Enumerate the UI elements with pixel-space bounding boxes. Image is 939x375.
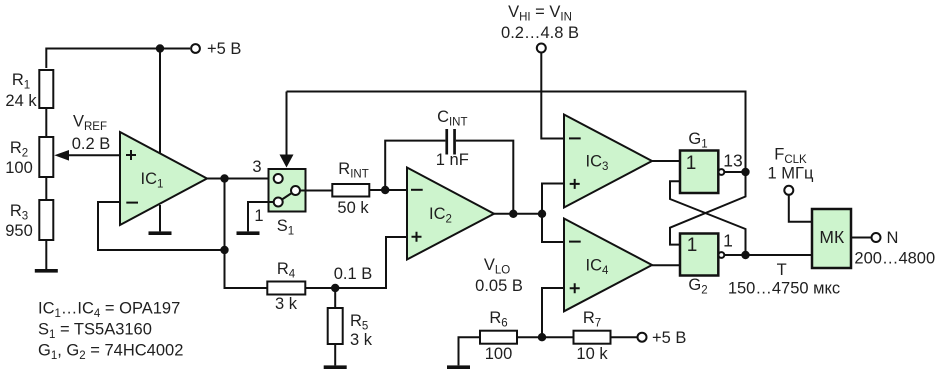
svg-text:1: 1	[723, 231, 733, 251]
IC4 minus input symbol	[569, 241, 581, 243]
svg-text:200…4800: 200…4800	[854, 249, 935, 267]
resistor R2 potentiometer	[39, 137, 53, 177]
svg-text:950: 950	[5, 222, 33, 240]
block MK	[812, 209, 851, 268]
op-amp IC4	[564, 219, 652, 312]
junction CINT branch	[381, 186, 389, 194]
wire IC3 output	[652, 160, 680, 162]
wire to IC3 plus	[542, 184, 564, 214]
ground under IC1	[149, 231, 172, 235]
wire G2 output	[724, 254, 745, 256]
IC2 plus input symbol	[412, 232, 422, 242]
terminal +5V top	[191, 44, 200, 53]
svg-text:0.1 В: 0.1 В	[334, 265, 373, 283]
ground under R6	[447, 365, 470, 369]
ground under S1	[237, 231, 260, 235]
wire G1 output	[724, 171, 745, 173]
wire R5 top	[334, 288, 336, 308]
S1 pin 3 circle	[274, 174, 283, 183]
svg-text:1: 1	[254, 207, 263, 225]
junction G2 output node	[741, 251, 749, 259]
G1 output bubble	[719, 169, 725, 175]
svg-text:1 МГц: 1 МГц	[768, 165, 814, 183]
wire IC1 output	[207, 178, 274, 180]
IC3 plus input symbol	[570, 179, 580, 189]
wire latch output to S1 control	[287, 92, 746, 173]
IC1 minus input symbol	[126, 202, 138, 204]
wire +5V top rail	[46, 49, 190, 69]
wire VHI to IC3 minus	[541, 53, 564, 139]
wire ground to R6	[459, 337, 481, 365]
wire S1 common to RINT	[300, 190, 332, 192]
wire IC2 output	[494, 213, 542, 215]
wire FCLK to MK	[789, 195, 812, 222]
resistor R3	[39, 200, 53, 240]
op-amp IC2	[407, 168, 494, 260]
resistor R1	[39, 70, 53, 108]
wire IC4 plus input	[542, 288, 564, 337]
terminal VHI	[537, 44, 546, 53]
ground under R5	[324, 365, 347, 369]
op-amp IC3	[564, 115, 652, 208]
wire R7 to +5V	[611, 336, 638, 338]
wire IC1 power pin	[159, 49, 161, 154]
wire IC2 plus input	[305, 237, 407, 288]
svg-text:S1 = TS5A3160: S1 = TS5A3160	[38, 321, 152, 342]
resistor R6	[480, 331, 517, 344]
G2 output bubble	[719, 252, 725, 258]
svg-text:+5 В: +5 В	[207, 40, 241, 58]
wire to IC4 minus	[542, 214, 564, 242]
arrowhead S1 control	[280, 155, 294, 168]
junction G1 output node	[741, 168, 749, 176]
capacitor CINT	[445, 129, 448, 155]
junction IC2 output CINT	[509, 210, 517, 218]
wire S1 pin1 to ground	[248, 202, 274, 231]
wire R2-R3	[45, 177, 47, 200]
IC1 plus input symbol	[126, 150, 136, 160]
junction IC1 output	[220, 174, 228, 182]
svg-text:1: 1	[686, 153, 697, 174]
terminal N	[872, 233, 881, 242]
terminal FCLK	[784, 186, 793, 195]
svg-text:1: 1	[687, 235, 698, 256]
S1 pin 1 circle	[274, 198, 283, 207]
svg-text:13: 13	[723, 151, 742, 171]
wire R6 to R7	[517, 336, 574, 338]
wire RINT to IC2 minus	[369, 189, 407, 191]
resistor R7	[574, 331, 611, 344]
wire R1-R2	[45, 108, 47, 137]
junction comparator branch	[538, 210, 546, 218]
wire CINT right branch	[456, 141, 513, 214]
resistor R4	[267, 282, 305, 295]
svg-text:0.05 В: 0.05 В	[475, 277, 523, 295]
svg-text:G1, G2 = 74HC4002: G1, G2 = 74HC4002	[38, 342, 183, 363]
junction R4 R5 node	[331, 284, 339, 292]
wire IC4 output	[652, 264, 680, 266]
op-amp IC1	[120, 132, 207, 225]
svg-text:50 k: 50 k	[337, 199, 369, 217]
wire R2 wiper to IC1 + input	[67, 154, 120, 156]
S1 lever	[278, 191, 295, 203]
IC2 minus input symbol	[411, 189, 423, 191]
wire cross G1 out to G2 input	[670, 172, 746, 245]
svg-text:100: 100	[5, 159, 33, 177]
arrowhead wiper	[54, 150, 69, 161]
wire cross G2 out to G1 input	[670, 181, 746, 255]
resistor R5	[328, 308, 343, 344]
svg-text:T: T	[777, 261, 787, 279]
svg-text:+5 В: +5 В	[652, 329, 686, 347]
junction R6 R7 node	[538, 333, 546, 341]
junction top rail	[156, 44, 164, 52]
svg-text:3: 3	[252, 158, 261, 176]
wire IC1 ground pin	[159, 205, 161, 231]
wire IC1 feedback	[98, 202, 225, 250]
wire G2 node to MK	[746, 254, 813, 256]
svg-text:0.2…4.8 В: 0.2…4.8 В	[501, 24, 579, 42]
S1 common pin circle	[291, 186, 300, 195]
terminal +5V bottom	[638, 333, 647, 342]
wire MK output	[851, 237, 872, 239]
junction feedback node	[220, 246, 228, 254]
wire S1 control arrow	[286, 92, 288, 157]
wire R3-ground	[45, 240, 47, 269]
IC3 minus input symbol	[569, 137, 581, 139]
svg-text:3 k: 3 k	[350, 331, 373, 349]
svg-text:100: 100	[485, 345, 513, 363]
svg-text:24 k: 24 k	[5, 92, 37, 110]
wire CINT left branch	[385, 141, 445, 190]
gate G1 box	[680, 151, 718, 194]
resistor RINT	[332, 184, 369, 197]
gate G2 box	[680, 234, 718, 276]
svg-text:3 k: 3 k	[275, 295, 298, 313]
svg-text:N: N	[887, 229, 899, 247]
switch S1 box	[269, 169, 306, 212]
wire R5 bottom	[334, 344, 336, 365]
svg-text:150…4750 мкс: 150…4750 мкс	[728, 280, 840, 298]
IC4 plus input symbol	[570, 283, 580, 293]
svg-text:МК: МК	[819, 227, 845, 247]
svg-text:10 k: 10 k	[576, 345, 608, 363]
wire output node down to R4	[225, 179, 268, 289]
svg-text:0.2 В: 0.2 В	[72, 135, 111, 153]
ground under R3	[35, 269, 58, 273]
svg-text:1 nF: 1 nF	[436, 151, 469, 169]
